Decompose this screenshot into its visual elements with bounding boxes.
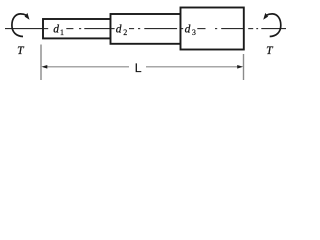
extension line left (40, 45, 42, 81)
wire centerline dashes in segment 1 (44, 28, 49, 30)
svg-text:d: d (116, 23, 122, 35)
extension line right (243, 54, 245, 80)
svg-text:3: 3 (192, 28, 196, 37)
torque arrow right (arc, mirrored) (263, 13, 281, 37)
shaft segment 3 (d3) (181, 8, 244, 50)
dimension line L right part (146, 66, 239, 68)
dimension line L left part (46, 66, 129, 68)
svg-text:L: L (135, 61, 142, 75)
wire centerline dashes in segment 3 (181, 28, 183, 30)
svg-text:d: d (185, 23, 191, 35)
torque arrow left (arc) (12, 14, 26, 37)
shaft segment 1 (d1) (43, 19, 111, 38)
svg-text:1: 1 (60, 28, 64, 37)
svg-text:d: d (53, 23, 59, 35)
torque arrow left arrowhead (25, 13, 30, 20)
dimension arrowhead right (237, 65, 243, 69)
wire centerline left solid segment (5, 28, 44, 30)
wire centerline right dash-dot then solid (248, 28, 253, 30)
svg-text:2: 2 (123, 28, 127, 37)
shaft segment 2 (d2) (111, 14, 181, 44)
wire centerline dashes in segment 2 (111, 28, 115, 30)
dimension arrowhead left (41, 65, 47, 69)
